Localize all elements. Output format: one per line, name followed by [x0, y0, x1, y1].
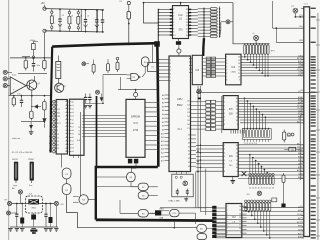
svg-text:b2: b2 [50, 107, 52, 109]
ground C8 [84, 106, 88, 108]
svg-text:c4: c4 [80, 16, 83, 18]
svg-text:a6: a6 [72, 123, 74, 125]
svg-text:2: 2 [57, 105, 58, 107]
pin ticks J1 left [301, 7, 304, 9]
wire U8 to U9 [202, 58, 225, 60]
svg-text:1: 1 [226, 57, 227, 59]
LED D4 [82, 62, 86, 66]
wire shield box [96, 167, 158, 220]
svg-text:1k: 1k [263, 187, 265, 189]
capacitor C8 [85, 94, 87, 104]
svg-text:3: 3 [57, 109, 58, 111]
resistor R16 [116, 57, 119, 60]
svg-text:4: 4 [170, 66, 171, 68]
wire K3 inputs [73, 196, 79, 198]
wire branch down to bus [144, 3, 159, 23]
gate K9 [138, 210, 148, 217]
svg-text:C6: C6 [298, 119, 301, 121]
svg-text:32: 32 [188, 158, 190, 160]
svg-text:1k: 1k [269, 187, 271, 189]
wire vertical x205.8 [205, 169, 207, 216]
svg-text:15: 15 [236, 149, 238, 151]
pin circles U4 left [53, 100, 56, 103]
svg-text:KEYB: KEYB [12, 159, 18, 161]
svg-text:18: 18 [186, 9, 188, 11]
svg-text:a4: a4 [72, 151, 74, 153]
svg-text:7: 7 [57, 123, 58, 125]
svg-text:A11: A11 [161, 136, 164, 139]
svg-text:1: 1 [227, 206, 228, 208]
svg-text:14: 14 [236, 152, 238, 154]
resistor pack RP3 [249, 173, 251, 175]
resistor network RN1 elements [198, 8, 210, 10]
svg-text:8: 8 [170, 80, 171, 82]
IC U9 [226, 54, 241, 85]
svg-text:5: 5 [227, 221, 228, 223]
capacitor C2 [85, 10, 87, 32]
svg-text:14: 14 [186, 22, 188, 24]
svg-text:1: 1 [224, 145, 225, 147]
wire top net to U3 [144, 2, 234, 4]
bus ripper pin column [212, 206, 216, 209]
resistor R10 [93, 62, 95, 75]
svg-text:A15: A15 [161, 152, 164, 155]
svg-text:CPU: CPU [177, 97, 183, 101]
svg-text:12: 12 [238, 70, 240, 72]
svg-text:8: 8 [224, 171, 225, 173]
tick row U10 bottom [230, 130, 232, 134]
wire rail y58 [10, 57, 52, 59]
svg-text:IC6: IC6 [229, 155, 233, 158]
gate K7 [138, 183, 148, 190]
svg-text:a7: a7 [72, 126, 74, 128]
wire U5 to EPROM data rows [84, 115, 126, 117]
svg-text:a2: a2 [72, 144, 74, 146]
svg-text:a1: a1 [72, 105, 74, 107]
svg-text:a3: a3 [72, 148, 74, 150]
box RP4 side [272, 198, 277, 202]
terminal J8 tape out [3, 77, 7, 81]
svg-text:bus: bus [29, 185, 32, 187]
svg-text:M: M [58, 116, 60, 118]
svg-text:A6: A6 [162, 117, 164, 120]
ground symbols row [8, 229, 12, 232]
svg-text:2: 2 [227, 210, 228, 212]
resistor R3 [77, 12, 79, 14]
svg-text:A1: A1 [162, 98, 164, 101]
terminal J6 gnd [7, 211, 11, 215]
svg-text:4: 4 [57, 112, 58, 114]
IC U12 [226, 204, 242, 238]
IC U5 ROM 2764 [70, 99, 85, 155]
wire vertical x198 [198, 86, 215, 208]
svg-text:3: 3 [226, 63, 227, 65]
svg-text:a0: a0 [72, 102, 74, 104]
svg-text:6: 6 [170, 73, 171, 75]
ground big reg [30, 230, 37, 232]
wire data bus D0-D7 [241, 56, 304, 58]
svg-text:27: 27 [188, 139, 190, 141]
IC X1 box [148, 63, 158, 72]
diode D2 [42, 118, 46, 123]
svg-text:5: 5 [173, 19, 174, 21]
svg-text:X1: X1 [151, 67, 154, 69]
wire K10 pins [160, 210, 169, 212]
gate K11 [197, 224, 207, 232]
svg-text:C11: C11 [297, 147, 301, 149]
svg-text:2: 2 [173, 9, 174, 11]
wire U8 left stubs [189, 58, 192, 60]
svg-text:10: 10 [57, 134, 59, 136]
svg-text:11: 11 [238, 73, 240, 75]
svg-text:4: 4 [227, 217, 228, 219]
svg-text:A2: A2 [162, 102, 164, 105]
gate K10 [170, 210, 179, 217]
resistor R15 [33, 213, 35, 215]
wire rail y95.7 [9, 95, 50, 97]
svg-text:8: 8 [224, 124, 225, 126]
svg-text:12: 12 [239, 221, 241, 223]
svg-text:13: 13 [238, 66, 240, 68]
wire J1 upper links [272, 1, 274, 28]
svg-text:8: 8 [173, 28, 174, 30]
op-amp U5 [10, 77, 26, 95]
svg-text:B13: B13 [297, 143, 301, 145]
svg-text:C12: C12 [17, 93, 22, 95]
wire drop to RP1 [233, 3, 244, 44]
svg-text:9: 9 [57, 130, 58, 132]
svg-text:IC7: IC7 [57, 123, 61, 125]
wire rail y121.7 [21, 121, 45, 123]
gate K2 [62, 184, 71, 195]
wire Y3 to J1 [295, 16, 303, 18]
connector J1 body [304, 7, 310, 237]
svg-text:IC 1: IC 1 [178, 129, 183, 131]
wire bottom bus rows [243, 207, 304, 209]
diode D1 [34, 104, 38, 108]
wire address fan to RP2 [243, 98, 245, 128]
svg-text:6: 6 [227, 225, 228, 227]
node +5V rail top [45, 9, 105, 10]
wire thick bus horizontal [52, 43, 157, 46]
svg-text:A16: A16 [161, 155, 164, 158]
svg-text:U 1: U 1 [305, 4, 309, 6]
svg-text:3: 3 [173, 12, 174, 14]
pin stubs U7 left lower [165, 94, 170, 96]
svg-text:a2: a2 [72, 109, 74, 111]
svg-text:11: 11 [236, 117, 238, 119]
svg-text:c5: c5 [87, 16, 90, 18]
terminal J7 tape in [3, 70, 7, 74]
svg-text:O: O [78, 131, 80, 133]
svg-text:15: 15 [186, 19, 188, 21]
crystal Y2 [183, 181, 188, 186]
wire K11 link [195, 213, 197, 224]
terminal J-in bottom [43, 29, 46, 32]
component R13 [283, 185, 285, 204]
right page border [317, 13, 319, 240]
pin box U6 bottom B [134, 159, 138, 164]
capacitor C9 [89, 94, 91, 104]
svg-text:6: 6 [226, 73, 227, 75]
pin fingers J1 right [311, 8, 316, 9]
connector K-A body [14, 162, 18, 181]
svg-text:3: 3 [170, 63, 171, 65]
svg-text:9V~: 9V~ [4, 200, 8, 202]
svg-text:A8: A8 [162, 125, 164, 128]
wire RP1 drops to data bus [244, 54, 246, 57]
fuse F1 [127, 1, 130, 4]
wire RP4 drops [245, 207, 247, 209]
svg-text:b12: b12 [49, 143, 52, 145]
svg-text:R: R [78, 127, 80, 129]
svg-text:11: 11 [186, 32, 188, 34]
svg-text:13: 13 [186, 25, 188, 27]
svg-text:5: 5 [226, 70, 227, 72]
diode D6 [100, 97, 104, 101]
svg-text:13: 13 [57, 145, 59, 147]
svg-text:F1: F1 [120, 1, 123, 3]
capacitor C10 [176, 189, 178, 196]
gate K5 [131, 74, 139, 81]
LED D5 [96, 90, 100, 94]
capacitor C4 [102, 10, 104, 32]
svg-text:15: 15 [239, 210, 241, 212]
svg-text:T2: T2 [64, 86, 67, 88]
svg-text:1k: 1k [255, 187, 257, 189]
IC U4 RAM 6116 [56, 100, 67, 155]
svg-text:16: 16 [186, 16, 188, 18]
svg-text:RP1: RP1 [271, 51, 276, 53]
svg-text:XT: XT [291, 6, 294, 8]
IC U11 [223, 143, 238, 177]
wire supply rail [12, 203, 55, 205]
capacitor C16 [21, 96, 23, 107]
svg-text:b8: b8 [50, 129, 52, 131]
svg-text:15: 15 [238, 60, 240, 62]
svg-text:4: 4 [224, 109, 225, 111]
wire vertical x200.5 [201, 86, 216, 212]
wire C16 drop [55, 206, 57, 227]
wire Q1 collector up [34, 58, 36, 81]
wire thick bus vertical right [157, 43, 158, 167]
svg-text:A9: A9 [162, 128, 164, 131]
svg-text:29: 29 [188, 146, 190, 148]
ground U11 [232, 177, 234, 181]
svg-text:A: A [58, 112, 60, 115]
wire K9 input [120, 212, 138, 214]
svg-text:A0: A0 [162, 94, 164, 97]
wire ripper to U12 [217, 207, 227, 209]
svg-text:a4: a4 [72, 116, 74, 118]
wire GA link [284, 148, 289, 150]
svg-text:A14: A14 [161, 148, 164, 151]
wire PHI2 line [196, 91, 318, 93]
IC U6 EPROM 2716 [126, 99, 145, 157]
capacitor C12 [16, 204, 18, 228]
resistor R9 [30, 109, 32, 121]
svg-text:1k: 1k [266, 187, 268, 189]
svg-text:7: 7 [226, 76, 227, 78]
wire y89.6 [118, 89, 157, 91]
wire U6 bottom to gate [132, 163, 137, 172]
svg-text:11: 11 [57, 137, 59, 139]
svg-text:c3: c3 [71, 15, 74, 17]
node pair [288, 133, 291, 136]
wire RP3 staircase to bus [249, 155, 251, 174]
svg-text:373: 373 [179, 29, 184, 32]
svg-text:b4: b4 [50, 114, 52, 116]
svg-text:A4: A4 [162, 109, 164, 112]
wire bus corner joint [154, 41, 160, 47]
resistor R5 [25, 58, 27, 71]
svg-text:IC9: IC9 [29, 194, 33, 196]
svg-text:c: c [54, 15, 55, 17]
wire bus rows extra [240, 119, 304, 121]
svg-text:7: 7 [224, 167, 225, 169]
svg-text:4: 4 [173, 16, 174, 18]
power node CPU [177, 49, 181, 53]
svg-text:R: R [58, 109, 60, 111]
wire x44.4 vertical [43, 33, 45, 58]
wire U7 left pins upper [158, 59, 169, 61]
svg-text:7: 7 [170, 77, 171, 79]
svg-text:IC7: IC7 [232, 216, 236, 219]
svg-text:A13: A13 [161, 144, 164, 147]
svg-text:13: 13 [236, 109, 238, 111]
svg-text:2716: 2716 [133, 130, 139, 132]
transistor Q1 [27, 80, 37, 90]
svg-text:138: 138 [229, 114, 234, 116]
terminal J2 input [3, 84, 7, 88]
svg-text:NMI: NMI [160, 218, 164, 220]
ground C9 [88, 106, 92, 108]
svg-text:14: 14 [236, 105, 238, 107]
svg-text:1k: 1k [272, 187, 274, 189]
wire U2 left pin rows [159, 8, 173, 10]
svg-text:M: M [78, 134, 80, 136]
svg-text:a1: a1 [72, 141, 74, 143]
power node EPROM [134, 93, 138, 97]
svg-text:IC4: IC4 [231, 66, 235, 69]
resistor pack RP4 [245, 200, 247, 202]
svg-text:9: 9 [237, 171, 238, 173]
series resistor array upper rows [206, 57, 210, 60]
page edge ticks [316, 19, 320, 21]
svg-text:26: 26 [188, 135, 190, 137]
svg-text:9: 9 [173, 32, 174, 34]
resistor pack RP2 frame [242, 129, 271, 140]
svg-text:4: 4 [224, 156, 225, 158]
gate K4 capsule [141, 57, 149, 67]
svg-text:XTAL 1 MHz: XTAL 1 MHz [168, 200, 180, 203]
svg-text:2: 2 [224, 149, 225, 151]
terminal J5 out [54, 201, 58, 205]
svg-text:17: 17 [186, 12, 188, 14]
svg-text:2: 2 [170, 59, 171, 61]
svg-text:6: 6 [224, 117, 225, 119]
svg-text:16: 16 [238, 57, 240, 59]
resistor R4 pull [226, 20, 230, 24]
wire rail y73.5 [18, 72, 47, 74]
svg-text:EPROM: EPROM [131, 116, 140, 119]
svg-text:A17: A17 [161, 159, 164, 162]
svg-text:b0: b0 [50, 100, 52, 102]
svg-text:11: 11 [236, 164, 238, 166]
gate K6 [127, 172, 136, 182]
wire U6 right pins to bus [145, 102, 158, 104]
svg-text:28: 28 [188, 143, 190, 145]
wire gates K6-K8 links [130, 182, 132, 187]
svg-text:A7: A7 [162, 121, 164, 124]
wire thick bus vertical left [51, 47, 53, 153]
capacitor C7 [33, 58, 35, 72]
wire address bus A-top [238, 97, 304, 99]
wire RN1 bundle down [202, 38, 205, 56]
pin stubs U7 right lower [191, 134, 197, 136]
resistor R7 [13, 96, 15, 107]
svg-text:K1, K2, K3 = 74HC00: K1, K2, K3 = 74HC00 [12, 152, 33, 154]
pin stubs U5 bottom [73, 155, 75, 158]
svg-text:LS00: LS00 [231, 72, 237, 74]
resistor pack RP1 [244, 43, 270, 45]
wire ground rail [10, 226, 58, 228]
box GA [289, 147, 296, 151]
svg-text:video out: video out [12, 137, 21, 140]
svg-text:tape: tape [13, 184, 18, 187]
gate K8 [138, 192, 148, 199]
svg-text:16: 16 [239, 206, 241, 208]
svg-text:14: 14 [239, 213, 241, 215]
component X2 [242, 171, 247, 176]
wire vertical x96.5 to box [96, 96, 98, 167]
svg-text:12: 12 [236, 160, 238, 162]
capacitor C14 [45, 204, 47, 228]
pin stubs U4 right [66, 101, 69, 103]
wire Q1 emitter down [31, 90, 33, 109]
svg-text:6: 6 [173, 22, 174, 24]
svg-text:16: 16 [236, 145, 238, 147]
gate K1 [62, 168, 71, 179]
wire lower address bundle [238, 150, 304, 152]
svg-text:c2: c2 [62, 15, 65, 17]
wire K2 output run [67, 195, 197, 228]
svg-text:12: 12 [236, 113, 238, 115]
diode D3 [29, 125, 33, 129]
svg-text:IC 8: IC 8 [133, 123, 138, 125]
svg-text:7: 7 [227, 228, 228, 230]
svg-text:1k: 1k [258, 187, 260, 189]
svg-text:b6: b6 [50, 121, 52, 123]
svg-text:7: 7 [224, 120, 225, 122]
svg-text:10: 10 [236, 167, 238, 169]
wire bus feeder column U2 [157, 9, 159, 42]
wire U11 left pins [196, 144, 223, 146]
svg-text:+5V: +5V [60, 204, 64, 206]
svg-text:16: 16 [236, 98, 238, 100]
svg-text:15: 15 [236, 102, 238, 104]
svg-text:7: 7 [173, 25, 174, 27]
svg-text:LS: LS [229, 161, 232, 163]
svg-text:IC5a: IC5a [12, 75, 17, 77]
pin stubs U12 right [242, 206, 247, 208]
svg-text:12: 12 [186, 28, 188, 30]
box clock circuit [172, 174, 193, 197]
svg-text:10: 10 [238, 76, 240, 78]
svg-text:9: 9 [240, 232, 241, 234]
svg-text:245: 245 [229, 165, 233, 167]
ground U2 [178, 39, 180, 42]
